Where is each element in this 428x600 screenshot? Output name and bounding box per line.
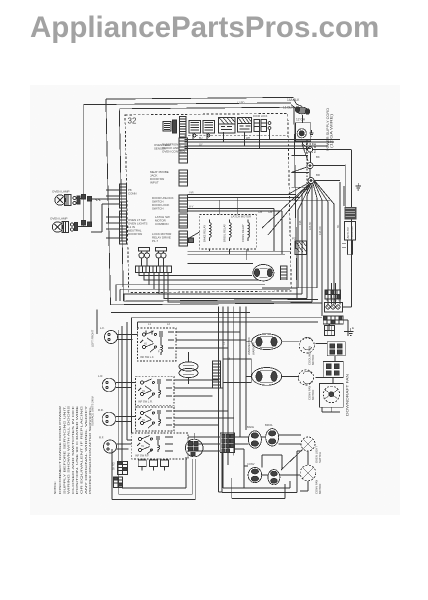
- oval element O2: [252, 368, 282, 386]
- coil L3: [241, 220, 250, 243]
- oval coil V3: [247, 462, 262, 483]
- ground symbol right: [356, 183, 362, 190]
- infinite switch box SW1 (dashed): [137, 322, 176, 361]
- B2 socket contacts: [70, 223, 77, 232]
- bottom lines upper section: [111, 303, 323, 305]
- top row box K1: [189, 121, 201, 137]
- oval element O1: [252, 334, 282, 350]
- mid-right link wires: [246, 324, 340, 412]
- contact feed stubs: [291, 156, 310, 188]
- P8 label block: [128, 188, 148, 236]
- downdraft fan motor: [319, 373, 349, 416]
- label column mid-right: [247, 337, 256, 355]
- lower-left loop wires: [119, 440, 193, 494]
- coil L1: [203, 220, 212, 243]
- grid connector P7 (dark): [220, 433, 234, 452]
- outer box second line: [83, 103, 291, 105]
- P1 pin labels (left of strip): [150, 143, 174, 243]
- coil drop wires: [210, 197, 249, 260]
- infinite switch box SW4 (dashed): [132, 433, 188, 459]
- inner box left vertical: [119, 107, 297, 301]
- connector P9 strip (horizontal, bottom of board): [136, 266, 172, 273]
- surface unit receptacle R2: [98, 374, 136, 392]
- wire bus top row: [184, 140, 340, 149]
- relay K3 hatched: [219, 118, 236, 134]
- connector cluster left (dark): [114, 462, 128, 488]
- B1 socket contacts: [73, 196, 80, 205]
- mid vertical bundle: [218, 306, 246, 492]
- relay box RB1: [327, 342, 345, 356]
- wires P1 to right area: [188, 191, 331, 255]
- outer loop wires bottom: [112, 449, 308, 500]
- latch switch arm: [187, 232, 200, 243]
- small connector right of DLB: [281, 266, 288, 280]
- notice text block: [53, 405, 92, 494]
- transistor pair Q1: [139, 248, 150, 267]
- wire color labels: [199, 137, 273, 214]
- top row box K2: [203, 121, 215, 137]
- junction box: [295, 115, 310, 144]
- wire nut splice: [291, 99, 310, 114]
- terminal strip TB2 (screws): [325, 303, 343, 313]
- relay board dashed edge: [306, 139, 308, 195]
- ground symbol at junction box: [309, 130, 313, 136]
- dashed separator inside board: [184, 135, 287, 137]
- power cord labels: [283, 98, 306, 122]
- anti-tip box: [342, 221, 356, 254]
- bus wires into terminal zone: [329, 290, 351, 336]
- left feed vertical wire: [82, 105, 84, 226]
- oval coil V4: [268, 470, 280, 485]
- small parts right of relays: [253, 115, 271, 132]
- lamp interconnect wires: [78, 195, 120, 233]
- contact fan wires: [262, 144, 351, 290]
- transistor pair Q2: [156, 248, 167, 267]
- round multi-pin connector: [185, 433, 203, 457]
- vertical strip connector mid: [213, 361, 221, 388]
- oval coil V2: [265, 423, 279, 446]
- relay box RB2: [323, 362, 343, 378]
- terminal strip TB1 (upper): [325, 290, 341, 299]
- top row ladder strip: [180, 117, 187, 138]
- P9 fan-out wires: [116, 273, 312, 303]
- dashed control board box: [125, 113, 291, 292]
- ground E symbol: [344, 326, 354, 336]
- bottom-right wiring: [222, 435, 308, 493]
- surface unit receptacle R4: [99, 436, 132, 454]
- coil L2: [223, 220, 232, 243]
- wire drops from relays to bus: [193, 130, 270, 149]
- middle section top rails: [111, 313, 322, 323]
- relay K4 hatched: [238, 118, 252, 133]
- connector P8 strip (left column): [120, 184, 127, 244]
- strain relief dashed: [307, 144, 315, 152]
- oval coil V1: [247, 425, 261, 448]
- right vertical wire bundle: [262, 182, 344, 316]
- lamp circle C2: [300, 465, 322, 494]
- wire elbows P9 to lower left: [116, 285, 159, 302]
- surface unit receptacle R1: [100, 326, 138, 344]
- clock text block: [162, 143, 186, 154]
- hatched connector above DLB: [292, 237, 307, 255]
- outer box top line: [106, 97, 294, 99]
- switch exit wires to bundle: [174, 332, 246, 451]
- wires P8 to board edge: [106, 190, 120, 238]
- oven fan motor circle: [298, 370, 315, 400]
- watermark AppliancePartsPros.com: [30, 11, 379, 45]
- P5 plug box: [325, 326, 335, 336]
- left bus verticals: [97, 310, 137, 495]
- transformer ovals: [179, 352, 198, 384]
- relay contact circles column: [307, 163, 314, 184]
- DLB oval component: [253, 265, 274, 281]
- bundle wire gauge labels: [223, 220, 340, 360]
- oven light bulb B2: [50, 217, 69, 233]
- terminal strip TB3 (lower): [323, 316, 343, 324]
- connector P1 strip (right column of board): [179, 138, 188, 246]
- component row below SW4: [113, 459, 169, 471]
- outer box left vertical: [106, 99, 111, 305]
- label block DOOR LOCK (dark): [345, 207, 357, 220]
- board top row: connector cluster: [163, 120, 177, 133]
- left margin vertical labels: [91, 330, 95, 426]
- relay coil box (dashed): [200, 215, 257, 249]
- oven light bulb B1: [52, 190, 71, 206]
- bottom section frame wires: [112, 449, 308, 500]
- cooling fan motor circle: [299, 337, 315, 365]
- infinite switch box SW2 (dashed): [136, 376, 175, 405]
- warmer box outline: [223, 359, 251, 382]
- infinite switch box SW3 (dashed): [136, 407, 175, 431]
- lower board wires: [188, 251, 291, 263]
- lamp circle C1: [301, 437, 322, 463]
- surface unit receptacle R3: [98, 408, 136, 426]
